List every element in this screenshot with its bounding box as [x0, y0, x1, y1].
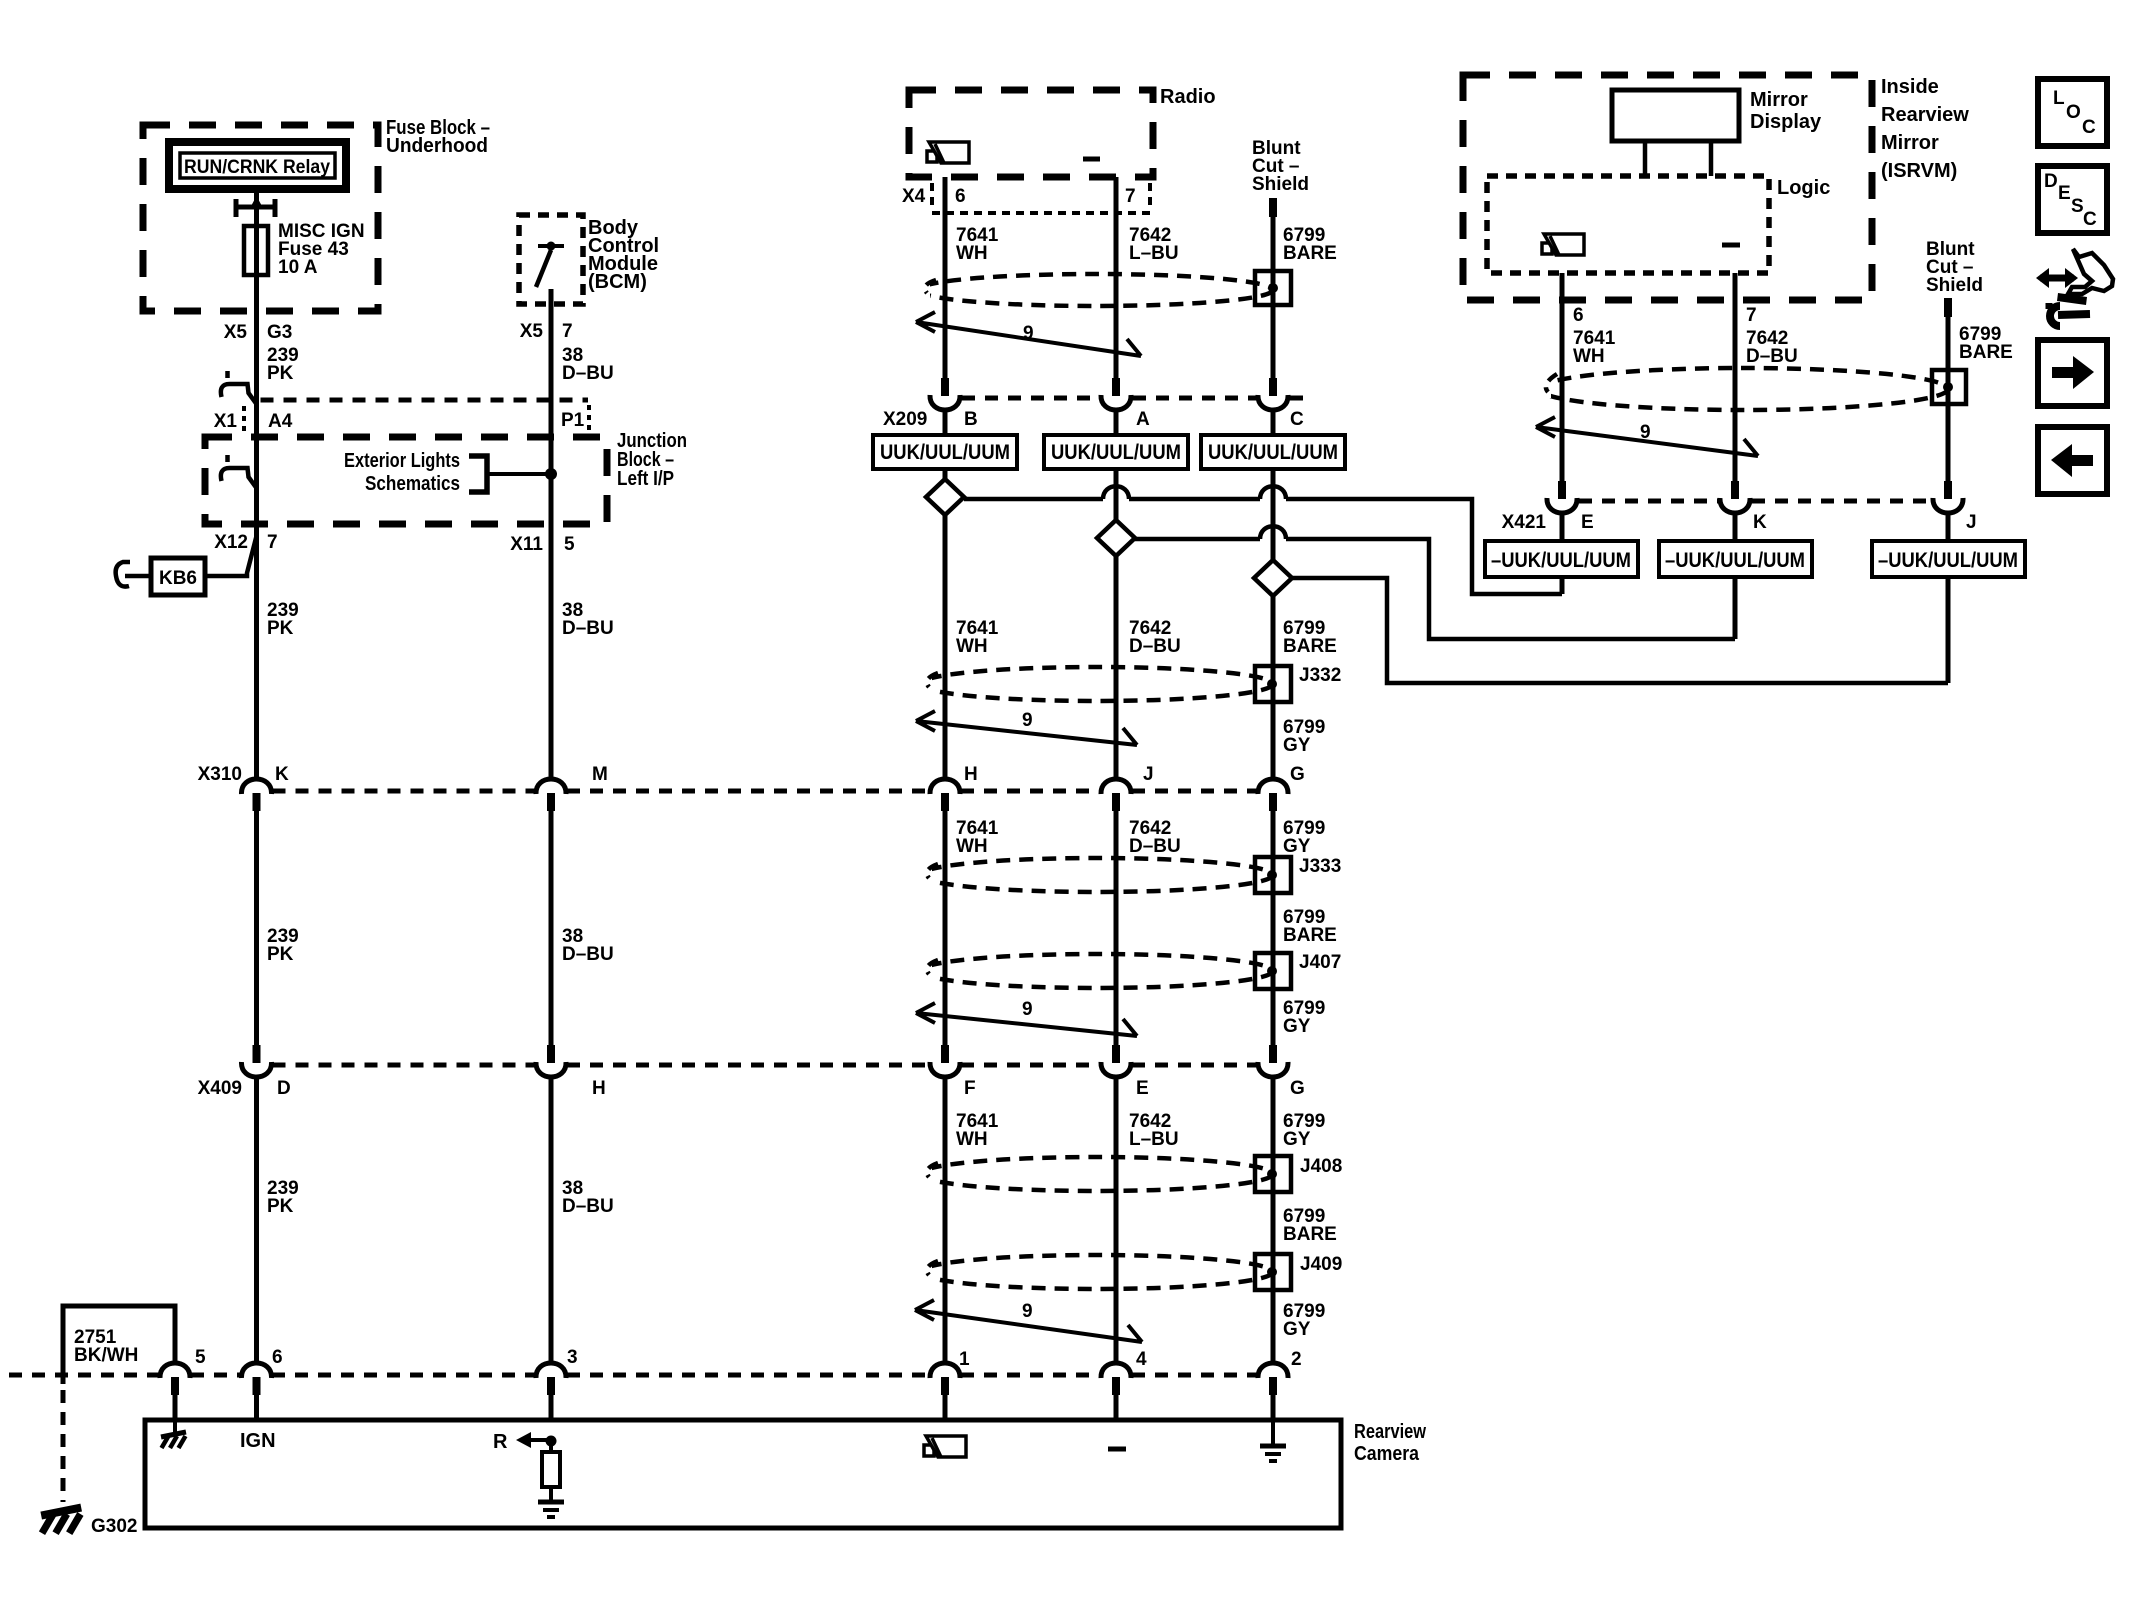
svg-text:J: J	[1143, 764, 1154, 785]
camera connector row (dashed)	[9, 1373, 1256, 1378]
icon box DESC	[2038, 166, 2107, 233]
wire 239 PK X310-X409	[254, 811, 259, 1045]
radio (dashed box)	[909, 90, 1153, 177]
svg-text:Underhood: Underhood	[386, 135, 488, 157]
svg-text:Logic: Logic	[1777, 177, 1830, 199]
svg-text:D–BU: D–BU	[1129, 836, 1181, 857]
rearview camera (box)	[145, 1420, 1341, 1528]
UUK/UUL/UUM box A	[1044, 435, 1188, 469]
connector camera pin 3	[536, 1363, 566, 1378]
chassis ground inside camera (pin5)	[173, 1420, 177, 1434]
svg-text:BARE: BARE	[1283, 636, 1337, 657]
svg-text:9: 9	[1640, 422, 1651, 443]
svg-text:7: 7	[267, 532, 278, 553]
minus sign in radio	[1083, 157, 1100, 162]
svg-text:5: 5	[195, 1347, 206, 1368]
svg-text:E: E	[1136, 1078, 1149, 1099]
twisted pair ellipse at J408	[920, 1157, 1273, 1191]
UUK/UUL/UUM box B	[873, 435, 1017, 469]
wire R junction to resistor	[549, 1441, 553, 1452]
wire dashed to G302	[61, 1390, 66, 1502]
svg-text:D–BU: D–BU	[562, 618, 614, 639]
connector X421 pin K	[1731, 481, 1739, 499]
connector X409 pin G	[1269, 1045, 1277, 1063]
wire splice C to ISRVM J (horizontal)	[1292, 578, 1948, 683]
resistor in camera box	[542, 1452, 560, 1487]
svg-text:Left I/P: Left I/P	[617, 468, 674, 490]
hop over 7642 wire	[1103, 486, 1129, 499]
icon box LOC	[2038, 79, 2107, 146]
wire 7642 D-BU ISRVM pin7	[1733, 273, 1738, 481]
connector camera pin 5	[160, 1363, 190, 1378]
svg-text:–UUK/UUL/UUM: –UUK/UUL/UUM	[1665, 549, 1805, 572]
svg-text:Rearview: Rearview	[1354, 1421, 1426, 1443]
svg-text:10 A: 10 A	[278, 257, 318, 278]
arrow 9 below J332	[916, 711, 1137, 745]
connector X209 row (dashed)	[962, 396, 1308, 401]
wire 7641 WH X409-camera	[943, 1078, 948, 1363]
svg-text:Mirror: Mirror	[1881, 132, 1939, 154]
svg-text:9: 9	[1022, 999, 1033, 1020]
connector X310 pin K	[241, 779, 271, 794]
twisted pair ellipse at J332	[920, 667, 1273, 701]
svg-text:BARE: BARE	[1283, 243, 1337, 264]
svg-text:WH: WH	[956, 243, 988, 264]
fuse block - underhood (dashed box)	[143, 125, 378, 311]
wire E cup to -UUK box	[1560, 514, 1565, 541]
svg-text:6: 6	[955, 186, 966, 207]
wire splice A to ISRVM K (horizontal)	[1135, 539, 1735, 639]
svg-text:J409: J409	[1300, 1254, 1342, 1275]
relay RUN/CRNK (box)	[169, 142, 346, 189]
svg-text:Display: Display	[1750, 111, 1822, 133]
svg-text:B: B	[964, 409, 978, 430]
svg-text:PK: PK	[267, 944, 294, 965]
svg-text:D–BU: D–BU	[1129, 636, 1181, 657]
connector X421 pin E	[1558, 481, 1566, 499]
shield termination box (radio)	[1255, 271, 1291, 305]
shield termination box (ISRVM)	[1932, 370, 1966, 404]
svg-text:G3: G3	[267, 322, 292, 343]
wire 239 PK to X310	[254, 522, 259, 779]
wire 7641 WH X310-X409	[943, 811, 948, 1045]
svg-text:J407: J407	[1299, 952, 1341, 973]
svg-text:PK: PK	[267, 363, 294, 384]
connector X4 face (dotted)	[932, 183, 1150, 213]
svg-text:X209: X209	[883, 409, 927, 430]
wire BCM to X5 pin 7	[549, 289, 554, 398]
svg-text:PK: PK	[267, 1196, 294, 1217]
connector X409 pin E	[1112, 1045, 1120, 1063]
splice J332 box	[1255, 666, 1291, 702]
connector X421 row (dashed)	[1579, 499, 1931, 504]
svg-text:(ISRVM): (ISRVM)	[1881, 160, 1957, 182]
svg-text:S: S	[2071, 196, 2084, 217]
body control module BCM (dashed box)	[519, 215, 583, 304]
wire J below box	[1946, 577, 1951, 683]
-UUK/UUL/UUM box J	[1872, 541, 2025, 577]
svg-text:C: C	[1290, 409, 1304, 430]
svg-text:BARE: BARE	[1959, 342, 2013, 363]
svg-text:X421: X421	[1502, 512, 1547, 533]
icon box arrow right	[2038, 340, 2107, 406]
svg-text:3: 3	[567, 1347, 578, 1368]
svg-text:BK/WH: BK/WH	[74, 1345, 138, 1366]
svg-text:H: H	[592, 1078, 606, 1099]
wire 38 D-BU to X310	[549, 524, 554, 779]
twisted pair ellipse at J409	[920, 1255, 1273, 1289]
wire 38 D-BU X409-camera	[549, 1078, 554, 1363]
svg-text:E: E	[2058, 183, 2071, 204]
wire 7642 L-BU X409-camera	[1114, 1078, 1119, 1363]
fuse MISC IGN Fuse 43 10 A	[244, 226, 268, 275]
svg-text:9: 9	[1022, 1301, 1033, 1322]
svg-text:6: 6	[272, 1347, 283, 1368]
svg-text:J333: J333	[1299, 856, 1341, 877]
svg-text:D–BU: D–BU	[562, 363, 614, 384]
camera icon in radio	[927, 151, 937, 162]
connector camera pin 6	[241, 1363, 271, 1378]
connector X409 pin D	[253, 1045, 261, 1063]
svg-text:PK: PK	[267, 618, 294, 639]
wire splice B to ISRVM E (horizontal)	[964, 499, 1562, 594]
earth ground inside camera (pin2)	[1271, 1420, 1275, 1444]
svg-text:X12: X12	[214, 532, 248, 553]
svg-text:G302: G302	[91, 1516, 137, 1537]
twisted pair ellipse (ISRVM)	[1539, 368, 1948, 410]
connector X310 pin G	[1258, 779, 1288, 794]
svg-text:WH: WH	[956, 836, 988, 857]
arrow 9 (radio twisted pair)	[916, 312, 1141, 356]
hop over 6799 wire (A line)	[1260, 526, 1286, 539]
svg-text:1: 1	[959, 1349, 970, 1370]
svg-text:X4: X4	[902, 186, 926, 207]
splice J407 box	[1255, 953, 1291, 989]
connector camera pin 4	[1101, 1363, 1131, 1378]
svg-text:GY: GY	[1283, 1129, 1311, 1150]
svg-text:J332: J332	[1299, 665, 1341, 686]
svg-text:A4: A4	[268, 411, 293, 432]
-UUK/UUL/UUM box K	[1659, 541, 1812, 577]
wire J cup to -UUK box	[1946, 514, 1951, 541]
svg-text:Radio: Radio	[1160, 86, 1216, 108]
junction block - left I/P (dashed box)	[205, 437, 607, 524]
svg-text:7: 7	[1746, 305, 1757, 326]
svg-text:X1: X1	[214, 411, 238, 432]
splice J408 box	[1255, 1156, 1291, 1192]
svg-text:GY: GY	[1283, 1319, 1311, 1340]
svg-text:Schematics: Schematics	[365, 473, 460, 495]
svg-text:BARE: BARE	[1283, 925, 1337, 946]
logic (dashed box)	[1487, 176, 1769, 273]
wire UUK C to splice diamond	[1271, 469, 1276, 578]
svg-text:C: C	[2083, 209, 2097, 230]
wire UUK B to splice diamond	[943, 469, 948, 497]
connector X310 pin M	[536, 779, 566, 794]
svg-text:K: K	[1753, 512, 1767, 533]
svg-text:KB6: KB6	[159, 568, 197, 589]
wire 7642 D-BU X310-X409	[1114, 811, 1119, 1045]
wire K cup to -UUK box	[1733, 514, 1738, 541]
svg-text:J: J	[1966, 512, 1977, 533]
wire resistor to ground	[549, 1487, 553, 1500]
wire relay to fuse	[254, 189, 259, 226]
svg-text:J408: J408	[1300, 1156, 1342, 1177]
wire 6799 GY to J333	[1271, 811, 1276, 1045]
connector X310 pin J	[1101, 779, 1131, 794]
wire 7641 WH radio pin6	[943, 177, 948, 378]
svg-text:X409: X409	[198, 1078, 242, 1099]
svg-text:GY: GY	[1283, 735, 1311, 756]
wire fuse to X5 pin G3	[254, 275, 259, 398]
arrow 9 below J409	[915, 1300, 1142, 1342]
splice diamond C	[1254, 560, 1292, 596]
wire B cup to UUK box	[943, 411, 948, 435]
svg-text:H: H	[964, 764, 978, 785]
svg-text:WH: WH	[956, 1129, 988, 1150]
wires pins into camera box	[173, 1395, 178, 1420]
wire 38 D-BU through junction block	[549, 398, 554, 524]
splice J333 box	[1255, 857, 1291, 893]
wire 7641 WH to X310	[943, 515, 948, 779]
wire 7641 WH ISRVM pin6	[1560, 273, 1565, 481]
svg-text:WH: WH	[956, 636, 988, 657]
blunt cut bar (radio shield)	[1269, 198, 1277, 217]
svg-text:IGN: IGN	[240, 1430, 276, 1452]
svg-text:Shield: Shield	[1926, 275, 1983, 296]
twisted pair ellipse at J407	[920, 954, 1273, 988]
arrow 9 below J407	[916, 1003, 1137, 1036]
svg-text:D: D	[277, 1078, 291, 1099]
curl symbol in junction block	[221, 455, 257, 488]
connector X409 pin F	[941, 1045, 949, 1063]
svg-text:P1: P1	[561, 410, 585, 431]
connector camera pin 1	[930, 1363, 960, 1378]
connector row X1 (dashed)	[261, 398, 589, 403]
wire C cup to UUK box	[1271, 411, 1276, 435]
wire 7642 L-BU radio pin7	[1114, 177, 1119, 378]
svg-text:–UUK/UUL/UUM: –UUK/UUL/UUM	[1491, 549, 1631, 572]
UUK/UUL/UUM box C	[1201, 435, 1345, 469]
wire KB6 branch	[205, 536, 257, 576]
wire 239 PK X409-camera	[254, 1078, 259, 1363]
svg-text:WH: WH	[1573, 346, 1605, 367]
wire K below box	[1733, 577, 1738, 639]
svg-text:GY: GY	[1283, 836, 1311, 857]
wires mirror display to logic	[1643, 141, 1648, 176]
connector X209 pin C	[1269, 378, 1277, 396]
svg-text:UUK/UUL/UUM: UUK/UUL/UUM	[1051, 441, 1181, 464]
wire UUK A to splice diamond	[1114, 469, 1119, 538]
hop over 6799 wire	[1260, 486, 1286, 499]
wire E below box	[1560, 577, 1565, 594]
svg-text:Camera: Camera	[1354, 1443, 1420, 1465]
svg-text:7: 7	[1125, 186, 1136, 207]
curl symbol (circuit continues)	[221, 371, 257, 404]
wire 38 D-BU X310-X409	[549, 811, 554, 1045]
svg-text:Mirror: Mirror	[1750, 89, 1808, 111]
svg-text:4: 4	[1136, 1349, 1147, 1370]
junction dot on 38 D-BU wire	[545, 468, 557, 480]
svg-text:X310: X310	[198, 764, 242, 785]
svg-text:(BCM): (BCM)	[588, 271, 647, 293]
svg-text:9: 9	[1023, 323, 1034, 344]
mirror display box	[1612, 90, 1739, 141]
svg-text:X5: X5	[520, 321, 544, 342]
svg-text:RUN/CRNK Relay: RUN/CRNK Relay	[184, 157, 330, 178]
KB6 box	[151, 558, 205, 595]
svg-text:Rearview: Rearview	[1881, 104, 1969, 126]
wire 6799 to J332	[1271, 596, 1276, 779]
svg-text:UUK/UUL/UUM: UUK/UUL/UUM	[1208, 441, 1338, 464]
wire 6799 BARE radio shield	[1271, 217, 1276, 378]
svg-text:L: L	[2053, 88, 2065, 109]
svg-text:UUK/UUL/UUM: UUK/UUL/UUM	[880, 441, 1010, 464]
svg-text:Inside: Inside	[1881, 76, 1939, 98]
minus sign in logic	[1722, 243, 1740, 248]
svg-text:9: 9	[1022, 710, 1033, 731]
svg-text:K: K	[275, 764, 289, 785]
svg-text:G: G	[1290, 764, 1305, 785]
wire A cup to UUK box	[1114, 411, 1119, 435]
splice J409 box	[1255, 1254, 1291, 1290]
svg-text:Exterior Lights: Exterior Lights	[344, 450, 460, 472]
svg-text:D–BU: D–BU	[562, 944, 614, 965]
bracket to exterior lights	[469, 456, 487, 492]
relay contact bracket	[236, 199, 275, 217]
camera icon in logic	[1542, 243, 1552, 254]
svg-text:R: R	[493, 1431, 508, 1453]
splice diamond A	[1097, 520, 1135, 556]
svg-text:D–BU: D–BU	[1746, 346, 1798, 367]
svg-text:E: E	[1581, 512, 1594, 533]
svg-text:F: F	[964, 1078, 976, 1099]
blunt cut bar (ISRVM shield)	[1944, 298, 1952, 317]
connector X310 pin H	[930, 779, 960, 794]
wire 7642 D-BU to X310	[1114, 556, 1119, 779]
arrow 9 (ISRVM twisted pair)	[1536, 417, 1758, 456]
svg-text:D–BU: D–BU	[562, 1196, 614, 1217]
twisted pair ellipse (radio)	[918, 274, 1273, 306]
connector camera pin 2	[1258, 1363, 1288, 1378]
connector X310 row (dashed)	[273, 789, 1257, 794]
svg-text:5: 5	[564, 534, 575, 555]
svg-text:6: 6	[1573, 305, 1584, 326]
connector X409 row (dashed)	[273, 1063, 1257, 1068]
curl symbol left of KB6	[116, 562, 151, 587]
connector X421 pin J	[1944, 481, 1952, 499]
svg-text:7: 7	[562, 321, 573, 342]
svg-text:O: O	[2066, 102, 2081, 123]
svg-text:L–BU: L–BU	[1129, 243, 1179, 264]
BCM switch	[538, 244, 564, 248]
wire 2751 BK/WH	[63, 1306, 175, 1384]
icon hand with double arrow and wrench	[2040, 275, 2074, 282]
svg-text:D: D	[2044, 171, 2058, 192]
icon box arrow left	[2038, 427, 2107, 494]
svg-text:Shield: Shield	[1252, 174, 1309, 195]
wire 6799 GY to J408	[1271, 1078, 1276, 1363]
svg-text:C: C	[2082, 117, 2096, 138]
svg-text:–UUK/UUL/UUM: –UUK/UUL/UUM	[1878, 549, 2018, 572]
svg-text:A: A	[1136, 409, 1150, 430]
twisted pair ellipse at J333	[920, 858, 1273, 892]
svg-text:BARE: BARE	[1283, 1224, 1337, 1245]
svg-text:2: 2	[1291, 1349, 1302, 1370]
camera icon in camera box	[924, 1445, 934, 1456]
svg-text:GY: GY	[1283, 1016, 1311, 1037]
svg-text:M: M	[592, 764, 608, 785]
earth ground below resistor	[538, 1500, 564, 1505]
ground G302 chassis symbol	[41, 1508, 81, 1516]
wire 6799 BARE ISRVM shield	[1946, 317, 1951, 481]
svg-text:X11: X11	[510, 534, 543, 555]
svg-text:L–BU: L–BU	[1129, 1129, 1179, 1150]
wire 239 PK through junction block	[254, 398, 259, 522]
connector X209 pin A	[1112, 378, 1120, 396]
connector X409 pin H	[547, 1045, 555, 1063]
svg-text:X5: X5	[224, 322, 248, 343]
connector X209 pin B	[941, 378, 949, 396]
minus sign in camera box	[1108, 1447, 1126, 1452]
svg-text:G: G	[1290, 1078, 1305, 1099]
inside rearview mirror ISRVM (dashed box)	[1463, 75, 1872, 300]
-UUK/UUL/UUM box E	[1485, 541, 1638, 577]
splice diamond B	[926, 479, 964, 515]
wire bracket to 38 D-BU wire	[487, 472, 551, 476]
